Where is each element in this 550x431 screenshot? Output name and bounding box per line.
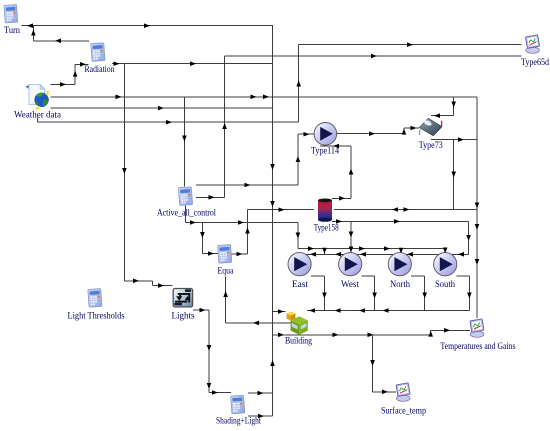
arrow right on y=330.3 to Temperatures xyxy=(444,328,450,333)
arrow down on weather bus x=124.4 xyxy=(122,168,127,174)
pump West xyxy=(339,253,362,276)
wire Building to Equa horizontal y=322.9 xyxy=(226,322,295,324)
arrow up on riser x=75.1 xyxy=(73,71,78,77)
wire Type158 bottom output horizontal y=221.4 xyxy=(332,220,469,222)
arrow left on return y=310.5 at 334.5 xyxy=(335,308,341,313)
arrow right on y=96.8 at 269 xyxy=(263,95,269,100)
calculator Equa xyxy=(218,245,232,264)
wire Type73 output drop x=453.7 to y=209.5 xyxy=(453,140,455,210)
wire East outlet drop x=324.4 xyxy=(323,276,325,310)
wire Active_all_control right output y=197.3 xyxy=(196,196,225,198)
arrow up on riser x=247.5 xyxy=(245,228,250,234)
arrow right on y=185 xyxy=(245,183,251,188)
calculator Shading+Light xyxy=(231,395,245,414)
arrow right into Building left y=311.5 xyxy=(278,309,284,314)
arrow left on feed y=254.3 at 454 xyxy=(458,252,464,257)
arrow down on bus x=477 at y=208.5 xyxy=(475,203,480,209)
arrow down on North drop x=424.7 xyxy=(422,293,427,299)
arrow left on y=322.9 xyxy=(253,321,259,326)
plotter Type65d xyxy=(525,35,539,53)
arrow right into Shading+Light y=392.5 xyxy=(212,390,218,395)
svg-text:West: West xyxy=(341,279,359,289)
svg-text:Type65d: Type65d xyxy=(521,57,549,67)
wire Lights output y=310.1 xyxy=(193,309,209,311)
arrow down on Lights drop x=209 upper xyxy=(207,345,212,351)
arrow down into South top x=445.2 xyxy=(443,248,448,254)
wire Weather output horizontal y=108.1 xyxy=(50,107,272,109)
arrow right on y=221.4 left xyxy=(336,219,342,224)
svg-text:Surface_temp: Surface_temp xyxy=(381,406,426,416)
arrow right on y=254 Equa output xyxy=(237,252,243,257)
arrow down on stub x=324.5 xyxy=(322,248,327,254)
arrow right on y=108.1 xyxy=(158,106,164,111)
wire Turn input horizontal y=25.7 xyxy=(22,25,274,27)
arrow right on y=122.2 xyxy=(166,120,172,125)
arrow left on feed y=254.3 at 360 xyxy=(360,252,366,257)
arrow down on South drop x=469.4 xyxy=(467,293,472,299)
arrow right on control y=248.6 at 390 xyxy=(384,246,390,251)
wire East outlet y=276.2 xyxy=(311,275,324,277)
calculator Active_all_control xyxy=(178,187,192,206)
svg-text:Type73: Type73 xyxy=(419,140,443,150)
arrow left on y=209.5 xyxy=(392,207,398,212)
arrow down on bus x=272.5 at 207 xyxy=(270,201,275,207)
wire Weather-to-Radiation step: horizontal y=84.4 xyxy=(50,83,75,85)
svg-text:Light Thresholds: Light Thresholds xyxy=(68,311,125,321)
plotter Temperatures and Gains xyxy=(470,319,484,337)
wire Building bottom output horizontal y=334.8 xyxy=(273,334,431,336)
arrow down on stub x=351 upper xyxy=(349,232,354,238)
wire Type73 output horizontal y=139.6 xyxy=(431,139,477,141)
arrow up on riser x=297.9 to Type114 xyxy=(296,156,301,162)
wire control stub x=324.5 xyxy=(324,249,326,255)
wire Equa riser x=247.5 xyxy=(247,210,249,254)
wire North outlet y=276.2 xyxy=(411,275,425,277)
arrow down on drop x=453.7 lower xyxy=(451,172,456,178)
wire into Type73 top horizontal y=115.7 xyxy=(431,115,454,117)
wire Shading+Light upper output y=393.1 xyxy=(248,392,273,394)
wire South outlet y=276.2 xyxy=(457,275,470,277)
svg-text:ON: ON xyxy=(186,290,190,293)
arrow up on bus x=272.5 at 360 xyxy=(270,360,275,366)
building Building xyxy=(287,311,308,334)
wire South outlet drop x=469.4 xyxy=(468,276,470,310)
wire drop x=297.9 to pump control line xyxy=(297,223,299,249)
wire Weather output horizontal y=96.8 xyxy=(50,96,477,98)
wire Equa bottom vertical x=225.6 xyxy=(225,277,227,323)
wire North outlet drop x=424.7 xyxy=(424,276,426,310)
wire Surface_temp branch drop x=372.6 xyxy=(372,335,374,392)
pump East xyxy=(288,253,311,276)
wire riser x=298.7 from y=122.2 to Type65d line y=44.7 xyxy=(298,45,300,123)
wire pump control horizontal y=248.6 xyxy=(298,248,445,250)
svg-text:Type114: Type114 xyxy=(311,146,339,156)
svg-text:Building: Building xyxy=(285,336,312,346)
wire Active_all_control bottom stub x=185.7 xyxy=(185,206,187,223)
wire Lights feed step x=152.6 xyxy=(152,281,154,286)
wire Active_all_control bottom output y=222.5 xyxy=(186,222,298,224)
arrow right on y=96.8 left xyxy=(116,95,122,100)
controller Lights xyxy=(173,289,192,307)
arrow right on y=221.4 mid xyxy=(394,219,400,224)
svg-text:North: North xyxy=(390,279,410,289)
wire Type158 top-right outlet horizontal y=198.3 xyxy=(332,197,351,199)
wire drop x=468.6 to pump feed line xyxy=(468,221,470,254)
arrow left on y=115.7 into Type73 top xyxy=(434,113,440,118)
arrow right on y=222.5 at 244 xyxy=(238,220,244,225)
arrow right on y=198.3 xyxy=(339,196,345,201)
arrow down on East drop x=324.4 xyxy=(322,293,327,299)
pump South xyxy=(434,253,457,276)
wire West outlet y=276.2 xyxy=(362,275,375,277)
svg-text:Radiation: Radiation xyxy=(85,64,115,74)
calculator Light Thresholds xyxy=(88,289,102,308)
wire Type158 to Type114 return riser x=351 xyxy=(350,146,352,198)
arrow right on control y=248.6 at 314 xyxy=(308,246,314,251)
wire Shading+Light lower output y=416.1 xyxy=(248,415,273,417)
arrow left on return y=310.5 at 309 xyxy=(309,308,315,313)
arrow right on y=25.7 at 150 xyxy=(144,23,150,28)
pump Type114 xyxy=(314,123,337,146)
wire Equa input drop x=202.4 xyxy=(201,223,203,254)
svg-text:OFF: OFF xyxy=(175,303,180,306)
wire Equa right output horizontal y=254 xyxy=(231,253,248,255)
arrow right on y=133.7 to Type73 xyxy=(369,131,375,136)
arrow left on return y=310.5 at 382.5 xyxy=(383,308,389,313)
arrow down on drop x=297.9 xyxy=(296,233,301,239)
arrow left on y=146 into Type114 bottom xyxy=(333,144,339,149)
arrow down on bus x=477 at y=265 xyxy=(475,259,480,265)
arrow up on riser x=298.7 xyxy=(296,81,301,87)
wire Active_all_control riser x=224.6 to Type65d line xyxy=(224,56,226,197)
arrow down on bus x=272.5 at 170 xyxy=(270,164,275,170)
wire Type114 to Type73 horizontal y=133.7 xyxy=(337,133,404,135)
wire into Temperatures and Gains y=330.3 xyxy=(431,329,470,331)
arrow right on Shading upper output y=393.1 xyxy=(258,391,264,396)
svg-text:Temperatures and Gains: Temperatures and Gains xyxy=(441,341,516,351)
arrow up on riser x=33.4 xyxy=(31,30,36,36)
svg-text:Type158: Type158 xyxy=(314,223,339,233)
arrow right on Equa input y=253.5 xyxy=(208,251,214,256)
arrow right on y=64.3 into Radiation xyxy=(80,62,86,67)
wire into Shading+Light horizontal y=392.5 xyxy=(209,392,231,394)
svg-text:Active_all_control: Active_all_control xyxy=(157,208,216,218)
wire Lights feed horizontal y=280.8 from weather bus xyxy=(124,280,152,282)
wire pump feed horizontal y=254.3 xyxy=(300,253,469,255)
arrow down on Surface_temp drop x=372.6 xyxy=(370,360,375,366)
arrow right on y=96.8 mid xyxy=(251,95,257,100)
arrow down on West drop x=374.6 xyxy=(372,293,377,299)
arrow down on drop x=453.7 upper xyxy=(451,102,456,108)
wire into Surface_temp horizontal y=391.8 xyxy=(373,391,396,393)
wire Radiation-to-Turn riser x=33.4 xyxy=(32,26,34,41)
arrow down on stub x=401 xyxy=(399,248,404,254)
svg-text:South: South xyxy=(435,279,455,289)
arrow left on feed y=254.3 at 310 xyxy=(310,252,316,257)
wire Weather output horizontal y=122.2 xyxy=(38,121,299,123)
wire Radiation output horizontal y=64 to bus xyxy=(112,63,273,65)
wire weather bus vertical x=124.4 xyxy=(123,64,125,281)
tank Type158 xyxy=(318,199,332,222)
arrow down on drop x=184.4 xyxy=(182,136,187,142)
wire main vertical bus x=272.5 (Radiation/Turn to Building/Shading return) xyxy=(272,26,274,416)
wire Type73 inlet step riser x=403.9 xyxy=(403,128,405,134)
wire Type158 right horizontal y=209.5 xyxy=(334,209,477,211)
wire drop to Active_all_control x=184.4 xyxy=(183,97,185,187)
wire pump return horizontal y=310.5 to Building xyxy=(307,310,469,312)
wire to Type65d lower horizontal y=56.9 xyxy=(225,55,522,57)
arrow right on Shading lower output y=416.1 xyxy=(258,414,264,419)
svg-text:Weather data: Weather data xyxy=(14,110,61,120)
arrow right on Radiation output y=63.3 near icon xyxy=(114,61,120,66)
svg-text:Shading+Light: Shading+Light xyxy=(216,416,261,426)
wire control drop into South x=445.2 xyxy=(444,249,446,254)
wire into Building left horizontal y=311.5 xyxy=(273,311,286,313)
arrow left into Turn on y=25.7 xyxy=(27,23,33,28)
wire to Type65d upper horizontal y=44.7 xyxy=(299,44,522,46)
plotter Surface_temp xyxy=(396,383,410,402)
arrow down on bus x=477 at y=230 xyxy=(475,224,480,230)
arrow right on Lights feed y=280.8 xyxy=(133,279,139,284)
collector Type73 xyxy=(419,118,442,135)
wire Lights feed horizontal y=285.6 xyxy=(153,285,173,287)
wire Radiation-to-Turn horizontal y=40.8 xyxy=(33,40,89,42)
arrow down on Equa input drop x=202.4 xyxy=(200,232,205,238)
wire right vertical bus x=477 (weather to Temperatures and Gains) xyxy=(476,97,478,318)
wire Weather label stub x=37.7 xyxy=(37,118,39,123)
wire control stub x=401 xyxy=(400,249,402,255)
wire Equa input horizontal y=253.5 xyxy=(202,253,218,255)
component Weather data (file + globe) xyxy=(25,85,52,113)
wire Weather-to-Radiation step: riser x=75.1 xyxy=(74,64,76,84)
svg-text:East: East xyxy=(292,279,309,289)
arrow right on control y=248.6 at 365 xyxy=(359,246,365,251)
wire into Type114 horizontal y=134.2 xyxy=(298,133,314,135)
arrow down on stub x=351 lower xyxy=(349,247,354,253)
arrow right on Lights output y=310.1 xyxy=(200,308,206,313)
arrow left on return y=310.5 at 359 xyxy=(359,308,365,313)
arrow right on y=139.6 xyxy=(458,137,464,142)
arrow down on Lights drop x=209 lower xyxy=(207,383,212,389)
arrow right on y=391.8 into Surface_temp xyxy=(382,390,388,395)
arrow up on riser x=351 xyxy=(349,169,354,175)
arrow left on feed y=254.3 at 335 xyxy=(335,252,341,257)
arrow right on Radiation output y=63.3 mid xyxy=(190,61,196,66)
arrow left on feed y=254.3 at 407 xyxy=(407,252,413,257)
arrow down on drop x=468.6 xyxy=(466,235,471,241)
wire into Type158 left horizontal y=209.7 xyxy=(248,209,314,211)
arrow right on y=209.5 xyxy=(404,207,410,212)
arrow right into Type114 y=134.2 xyxy=(304,132,310,137)
calculator Radiation xyxy=(91,43,105,62)
arrow up on step x=403.9 xyxy=(402,129,407,135)
svg-text:Equa: Equa xyxy=(218,266,234,276)
arrow right on y=334.8 at 284 xyxy=(278,333,284,338)
calculator Turn xyxy=(4,5,18,23)
wire stub x=351 from Type158 bottom line to pump feed xyxy=(350,221,352,254)
arrow up on Equa bottom vertical x=225.6 xyxy=(223,291,228,297)
arrow right on y=44.7 to Type65d xyxy=(407,42,413,47)
wire Type158 to Type114 return horizontal y=146 xyxy=(320,145,351,147)
arrow left on y=40.8 xyxy=(55,39,61,44)
arrow right on y=197.3 xyxy=(209,195,215,200)
svg-text:Turn: Turn xyxy=(4,25,20,35)
arrow up on step x=430.7 xyxy=(428,331,433,337)
wire Lights output drop x=209 xyxy=(208,310,210,392)
wire step riser x=430.7 xyxy=(430,330,432,335)
wire Type73 inlet horizontal y=128 xyxy=(404,127,419,129)
arrow right on y=128 into Type73 xyxy=(411,126,417,131)
wire Active_all_control to Type114 horizontal y=185 xyxy=(196,184,298,186)
pump North xyxy=(388,253,411,276)
wire riser x=297.9 into Type114 xyxy=(297,134,299,185)
arrow right on Lights feed y=285.6 xyxy=(158,283,164,288)
arrow right on y=334.8 at 338.5 xyxy=(333,333,339,338)
arrow up on riser x=224.6 xyxy=(222,123,227,129)
arrow right on y=222.5 at 196 xyxy=(190,220,196,225)
arrow right on y=84.4 xyxy=(60,82,66,87)
arrow right on y=334.8 at 373.5 xyxy=(368,333,374,338)
wire Weather-to-Radiation step: horizontal y=64.3 into Radiation xyxy=(75,63,88,65)
wire drop to Type73 top x=453.7 xyxy=(453,97,455,116)
wire West outlet drop x=374.6 xyxy=(374,276,376,310)
arrow right on y=56 to Type65d xyxy=(371,54,377,59)
arrow right on y=209.7 into Type158 xyxy=(279,207,285,212)
svg-text:Lights: Lights xyxy=(172,311,195,321)
